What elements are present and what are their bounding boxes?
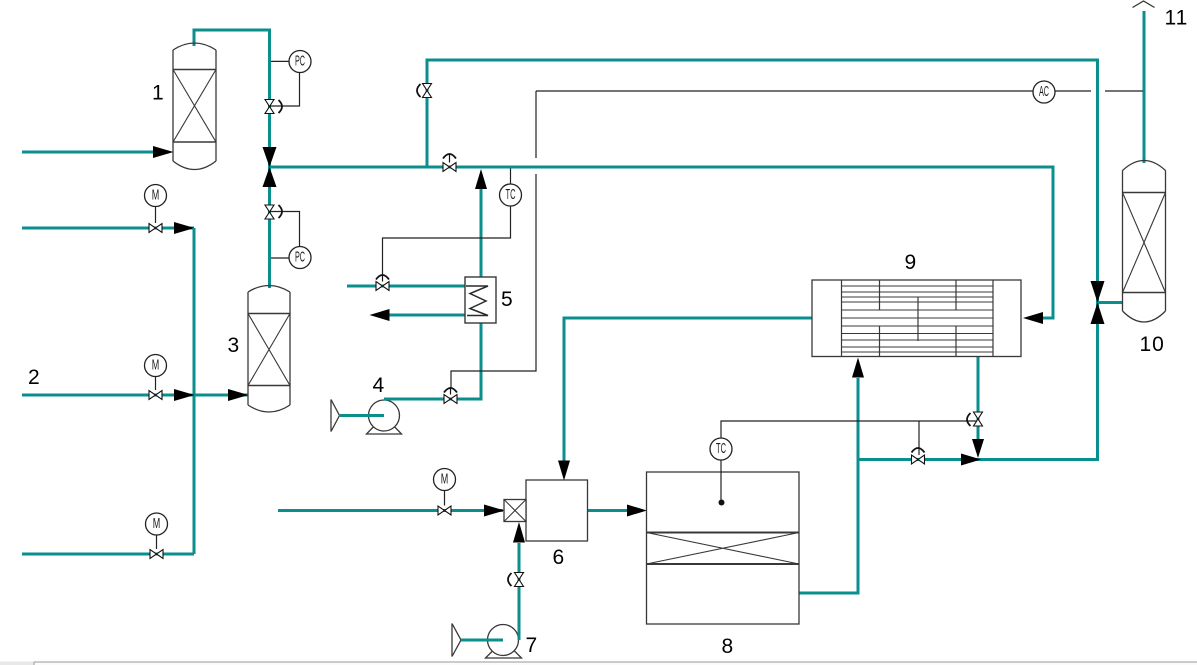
wire vent line 11 <box>1143 11 1146 163</box>
instrument line PC2 sensor tap <box>271 257 289 259</box>
svg-text:PC: PC <box>295 53 305 70</box>
mixer 6 inlet X box <box>504 500 526 522</box>
wire valve outlet to column 10 <box>1098 301 1123 304</box>
wire feed line 2 <box>22 394 248 397</box>
instrument line AC horizontal <box>536 90 1143 92</box>
pump 7 <box>486 625 522 659</box>
instrument line AC to valve on pump 4 discharge <box>451 91 536 389</box>
control valve on vessel overhead junction <box>263 147 277 187</box>
arrow feed 2 first <box>174 389 195 401</box>
svg-text:2: 2 <box>28 366 40 389</box>
heat exchanger 9 <box>812 280 1021 357</box>
wire exchanger 9 outlet to mixer 6 <box>564 318 812 461</box>
instrument line PC1 to valve <box>270 73 300 107</box>
svg-text:M: M <box>441 471 449 488</box>
wire feed line 2nd <box>22 227 194 230</box>
svg-text:M: M <box>152 357 160 374</box>
wire mixer feed line <box>278 509 503 512</box>
arrow bypass line right <box>961 454 981 466</box>
wire cooling water outlet exchanger 5 <box>389 314 465 317</box>
arrow into exchanger 9 bottom <box>852 358 864 378</box>
pump 4 inlet funnel <box>331 400 340 432</box>
instrument line TC2 sensor into reactor <box>719 460 725 506</box>
wire feed manifold vertical <box>193 228 196 554</box>
wire pump 4 discharge to exchanger 5 <box>384 323 481 399</box>
pump 7 inlet funnel <box>452 624 461 657</box>
label 8 <box>722 635 734 658</box>
hand valve feed 2 with M actuator <box>145 355 167 400</box>
svg-text:M: M <box>153 515 161 532</box>
valve on pump 7 discharge <box>508 573 524 587</box>
label 3 <box>228 334 240 357</box>
label 7 <box>526 634 538 657</box>
svg-text:TC: TC <box>506 186 516 203</box>
wire pump 4 discharge overlay <box>384 398 420 401</box>
vessel 3 <box>248 286 290 413</box>
wire main process header <box>270 167 1054 318</box>
instrument AC <box>1033 81 1055 103</box>
arrow cooling water out <box>370 309 390 321</box>
svg-text:1: 1 <box>152 82 164 105</box>
svg-text:7: 7 <box>526 634 538 657</box>
wire exchanger 5 riser to main header <box>480 189 483 277</box>
svg-text:8: 8 <box>722 635 734 658</box>
valve on main header <box>443 154 456 172</box>
instrument line PC2 to valve <box>270 212 300 247</box>
svg-text:4: 4 <box>373 374 385 397</box>
control valve feeding column 10 <box>1091 281 1105 324</box>
label 4 <box>373 374 385 397</box>
hand valve feed bottom with M actuator <box>146 513 168 559</box>
wire pump 7 suction overlay <box>461 639 503 642</box>
valve on recycle branch <box>417 84 432 98</box>
valve on pump 4 discharge <box>444 387 457 404</box>
wire cooling water inlet exchanger 5 <box>347 285 465 288</box>
arrow exchanger outlet down <box>972 439 984 458</box>
reactor 8 <box>647 472 800 624</box>
svg-text:3: 3 <box>228 334 240 357</box>
valve PV2 above vessel 3 <box>265 205 282 219</box>
wire vessel 1 overhead pipe <box>194 30 270 288</box>
instrument line PC1 sensor tap <box>271 60 289 62</box>
heat exchanger 5 <box>465 277 496 323</box>
svg-text:6: 6 <box>553 546 565 569</box>
instrument PC1 <box>289 51 311 73</box>
svg-text:11: 11 <box>1165 7 1189 30</box>
wire recycle line top <box>427 60 1098 460</box>
svg-text:PC: PC <box>295 249 305 266</box>
arrow into reactor 8 <box>627 505 647 517</box>
wire pump 7 discharge overlay <box>518 600 521 640</box>
valve on exchanger 9 bypass <box>912 448 925 464</box>
pump 4 <box>367 400 402 434</box>
svg-text:TC: TC <box>716 440 726 457</box>
wire feed line into vessel 1 <box>22 151 154 154</box>
arrow into mixer bottom inlet <box>513 522 525 543</box>
label 11 <box>1165 7 1189 30</box>
wire pump 7 suction <box>461 639 503 642</box>
arrow into exchanger 9 right side <box>1023 312 1043 324</box>
arrow into main header <box>475 169 487 189</box>
instrument line TC1 to valve <box>383 206 511 274</box>
valve PV1 on overhead line <box>265 100 282 114</box>
arrow into mixer inlet <box>484 505 505 517</box>
wire exchanger 9 bottom outlet <box>977 357 980 441</box>
label 10 <box>1140 333 1165 356</box>
instrument TC1 <box>500 184 522 206</box>
wire mixer outlet to reactor 8 <box>588 509 629 512</box>
arrow into mixer 6 top <box>558 461 570 481</box>
label 6 <box>553 546 565 569</box>
instrument line TC2 to valves <box>721 421 978 455</box>
vessel 1 <box>173 43 216 170</box>
label 9 <box>905 251 917 274</box>
svg-text:M: M <box>152 187 160 204</box>
column 10 <box>1123 161 1166 323</box>
wire feed line bottom <box>22 553 194 556</box>
scrollbar strip <box>0 662 1197 665</box>
arrow into vessel 1 <box>153 146 174 158</box>
instrument PC2 <box>289 247 311 269</box>
wire pump 4 suction overlay <box>339 414 384 417</box>
label 2 <box>28 366 40 389</box>
hand valve feed 2nd with M actuator <box>145 185 167 233</box>
vent chevron <box>1133 1 1155 8</box>
instrument line TC1 sensor tap <box>510 169 512 185</box>
arrow feed 2nd <box>174 222 195 234</box>
svg-text:AC: AC <box>1039 83 1049 100</box>
wire pump 4 suction <box>339 414 384 417</box>
svg-text:5: 5 <box>501 288 513 311</box>
wire reactor 8 outlet riser <box>799 378 858 593</box>
hand valve mixer feed with M actuator <box>434 469 456 516</box>
wire pump 7 discharge riser <box>518 543 521 639</box>
valve on cooling water inlet <box>376 274 389 291</box>
label 1 <box>152 82 164 105</box>
instrument TC2 <box>710 438 732 460</box>
arrow into vessel 3 <box>228 389 249 401</box>
svg-text:10: 10 <box>1140 333 1165 356</box>
label 5 <box>501 288 513 311</box>
mixer 6 body <box>526 480 588 541</box>
valve on exchanger 9 outlet <box>967 412 983 426</box>
svg-text:9: 9 <box>905 251 917 274</box>
